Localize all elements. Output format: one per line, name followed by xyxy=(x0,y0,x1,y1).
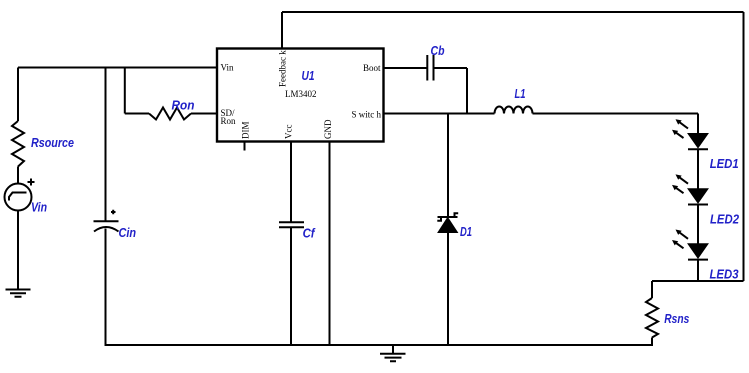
wire Boot to Cb xyxy=(384,67,428,69)
wire D1 to bottom rail xyxy=(447,233,449,347)
svg-text:S witc h: S witc h xyxy=(351,110,381,120)
wire Vin rail xyxy=(18,67,217,69)
svg-text:Cf: Cf xyxy=(303,227,317,241)
source Vin plus sign xyxy=(28,179,35,186)
svg-text:L1: L1 xyxy=(515,87,526,101)
wire Ron loop horizontal xyxy=(125,113,149,115)
svg-text:Boot: Boot xyxy=(363,63,381,73)
svg-text:LM3402: LM3402 xyxy=(285,89,317,99)
wire bottom rail xyxy=(105,344,653,346)
wire Ron to SD pin xyxy=(191,113,217,115)
inductor L1 xyxy=(495,107,533,114)
svg-text:Ron: Ron xyxy=(221,116,237,126)
svg-text:Cb: Cb xyxy=(431,44,445,58)
wire Rsns stub xyxy=(651,281,653,298)
wire Switch to L1 xyxy=(384,113,495,115)
svg-text:Feedbac k: Feedbac k xyxy=(278,50,288,87)
wire Ron loop vertical xyxy=(124,68,126,114)
svg-text:Vin: Vin xyxy=(31,201,47,215)
LED LED1 xyxy=(672,119,708,149)
svg-text:Vin: Vin xyxy=(221,63,234,73)
svg-text:U1: U1 xyxy=(302,69,315,83)
svg-text:LED3: LED3 xyxy=(710,268,739,282)
diode D1 triangle xyxy=(438,218,458,233)
capacitor Cb xyxy=(427,55,433,81)
ground bottom stub xyxy=(392,345,394,354)
ground bottom xyxy=(380,354,406,362)
diode D1 wire from switch node xyxy=(447,114,449,218)
resistor Rsource xyxy=(12,121,24,167)
wire GND drop xyxy=(329,142,331,347)
wire Cin to bottom rail xyxy=(105,229,107,347)
svg-text:LED2: LED2 xyxy=(710,213,739,227)
wire down to LED1 xyxy=(697,114,699,134)
source Vin circle xyxy=(5,184,32,211)
wire Vcc drop xyxy=(290,142,292,223)
wire Cf to bottom rail xyxy=(290,227,292,346)
svg-text:LED1: LED1 xyxy=(710,157,739,171)
wire left drop to Rsource xyxy=(17,68,19,122)
LED LED3 xyxy=(672,230,708,260)
wire source to ground xyxy=(17,211,19,290)
wire Rsource to source xyxy=(17,167,19,184)
source Vin waveform icon xyxy=(9,193,27,201)
wire right side drop xyxy=(743,12,745,281)
diode D1 schottky bar xyxy=(437,213,458,221)
pin stub DIM xyxy=(244,142,246,151)
svg-text:Rsource: Rsource xyxy=(31,136,74,150)
svg-text:Rsns: Rsns xyxy=(664,312,689,326)
wire LED1 to LED2 xyxy=(697,149,699,188)
resistor Ron xyxy=(149,108,191,120)
svg-text:Ron: Ron xyxy=(172,99,195,113)
capacitor Cin curved plate xyxy=(94,227,119,232)
wire Cb drop to switch node xyxy=(466,68,468,114)
wire Rsns to bottom rail xyxy=(651,338,653,347)
svg-text:Cin: Cin xyxy=(119,226,137,240)
wire feedback pin stub xyxy=(281,12,283,49)
wire LED2 to LED3 xyxy=(697,205,699,244)
resistor Rsns xyxy=(646,298,658,338)
ground left xyxy=(6,290,31,297)
svg-text:GND: GND xyxy=(323,119,333,139)
wire Cin drop xyxy=(105,68,107,221)
capacitor Cin plate xyxy=(94,220,119,222)
svg-text:Vcc: Vcc xyxy=(284,125,294,140)
wire L1 to LED string xyxy=(533,113,699,115)
wire top feedback rail xyxy=(282,11,744,13)
LED LED2 xyxy=(672,174,708,204)
wire Cb to drop xyxy=(434,67,468,69)
wire bottom right horizontal xyxy=(652,280,744,282)
capacitor Cf xyxy=(279,222,304,227)
svg-text:D1: D1 xyxy=(460,225,472,239)
wire LED3 down xyxy=(697,260,699,281)
svg-text:DIM: DIM xyxy=(241,122,251,140)
capacitor Cin plus mark xyxy=(111,210,116,214)
op-amp U1 box xyxy=(217,49,384,142)
